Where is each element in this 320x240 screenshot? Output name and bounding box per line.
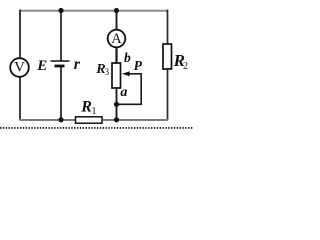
svg-text:V: V xyxy=(14,60,25,76)
svg-text:2: 2 xyxy=(183,61,188,72)
label a xyxy=(120,85,127,100)
resistor R1 xyxy=(76,117,103,123)
svg-text:r: r xyxy=(74,56,81,73)
wire battery branch xyxy=(60,11,62,121)
label P xyxy=(134,58,143,73)
svg-text:b: b xyxy=(124,50,131,65)
wire wiper loop xyxy=(117,74,141,105)
node junction bottom rheostat xyxy=(114,117,119,122)
wire right xyxy=(167,10,169,121)
dotted rule xyxy=(0,127,193,129)
ammeter A xyxy=(108,30,126,48)
label R1 xyxy=(80,98,96,117)
svg-text:1: 1 xyxy=(92,106,97,117)
svg-text:P: P xyxy=(134,58,143,73)
svg-text:E: E xyxy=(36,58,47,74)
svg-text:A: A xyxy=(111,31,122,47)
resistor R3 (rheostat body) xyxy=(112,63,121,88)
node junction top ammeter xyxy=(114,8,119,13)
wire ammeter/rheostat branch xyxy=(116,11,118,121)
resistor R2 xyxy=(163,44,172,69)
label R3 xyxy=(95,62,109,77)
wiper arrow P xyxy=(122,71,130,76)
label r xyxy=(74,56,81,73)
label R2 xyxy=(173,51,188,72)
svg-text:a: a xyxy=(120,85,127,100)
battery E with internal resistance xyxy=(51,61,70,66)
svg-text:3: 3 xyxy=(105,67,110,77)
svg-text:R: R xyxy=(80,98,92,115)
label E xyxy=(36,58,47,74)
voltmeter V xyxy=(10,58,29,77)
wire top xyxy=(20,10,169,12)
label b xyxy=(124,50,131,65)
node junction wiper to a xyxy=(114,102,119,107)
node junction top battery xyxy=(58,8,63,13)
wire left xyxy=(19,10,21,121)
node junction bottom battery xyxy=(58,117,63,122)
wire bottom xyxy=(20,119,169,121)
